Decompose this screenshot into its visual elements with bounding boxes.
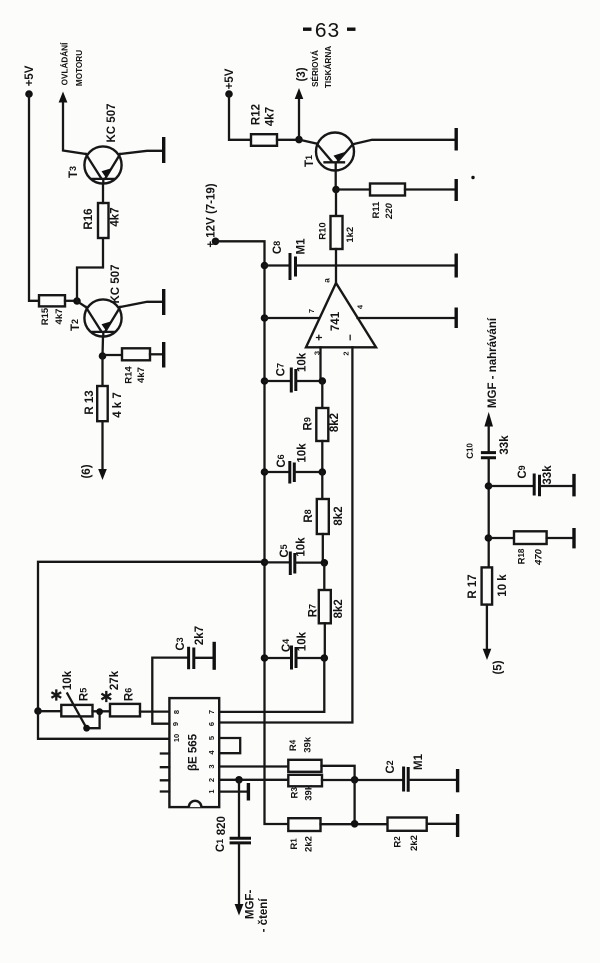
svg-text:10k: 10k [297, 631, 309, 651]
svg-text:R15: R15 [40, 307, 51, 325]
wire T2 collector lead [77, 301, 86, 307]
wire strap pin5 to pin4 [219, 738, 240, 753]
svg-text:33k: 33k [542, 465, 554, 485]
op-amp U1 741 [306, 278, 376, 356]
svg-text:MGF-: MGF- [245, 890, 257, 920]
ground R2 [456, 814, 459, 837]
node R1-R2 junction [351, 820, 359, 828]
wire op-amp pin3 stub to C7 node [319, 347, 321, 381]
resistor R2 [388, 818, 427, 851]
wire C5 node to R7 [323, 563, 325, 590]
arrow MGF nahravani [484, 412, 493, 427]
ground C3 [212, 642, 215, 670]
resistor R10 [317, 216, 356, 249]
svg-text:2k7: 2k7 [194, 626, 206, 645]
ground R14 [162, 342, 165, 368]
svg-text:OVLÁDÁNÍ: OVLÁDÁNÍ [60, 42, 70, 85]
wire output line C8 to ground [296, 264, 455, 266]
svg-text:2: 2 [207, 778, 216, 782]
wire C10 down through nodes [488, 458, 490, 567]
ground T3 emitter [162, 137, 165, 163]
svg-text:4k7: 4k7 [110, 207, 122, 226]
wire op-amp pin2 feedback to IC pin6 [219, 347, 352, 722]
wire junction down to R1-R2 node [353, 780, 355, 824]
svg-text:820: 820 [216, 816, 228, 835]
svg-text:220: 220 [384, 202, 395, 220]
arrow (5) [483, 649, 492, 660]
svg-text:C5: C5 [279, 544, 291, 557]
capacitor C8 [272, 238, 308, 280]
transistor T3 KC507 [68, 104, 122, 184]
node pin2 junction [235, 776, 243, 784]
wire C4 node down to IC pin 7 [219, 658, 324, 712]
svg-text:TISKÁRNA: TISKÁRNA [323, 46, 333, 88]
wire C7 node to R9 [321, 381, 323, 408]
svg-text:C4: C4 [281, 639, 293, 652]
node T2 base junction [99, 352, 107, 360]
svg-text:R4: R4 [288, 739, 299, 751]
svg-text:2k2: 2k2 [304, 836, 315, 852]
wire node to R18 [488, 537, 514, 539]
node C7 right junction [319, 377, 327, 385]
svg-text:C7: C7 [276, 363, 288, 376]
ground C2 [456, 769, 459, 792]
node pot wiper junction [96, 708, 103, 715]
star mark R5 [52, 691, 60, 700]
wire T3 emitter to ground [120, 151, 162, 154]
wire node to R13 [101, 356, 103, 386]
resistor R4 [288, 736, 321, 772]
capacitor C5 [265, 537, 325, 575]
svg-text:33k: 33k [499, 435, 511, 455]
wire R1 to R2 [321, 823, 388, 825]
svg-text:27k: 27k [109, 670, 121, 690]
node T1 emitter junction [332, 186, 340, 194]
svg-text:R10: R10 [317, 222, 328, 239]
wire R10 to output node [335, 249, 337, 266]
svg-text:63: 63 [314, 21, 339, 44]
label ovladani motoru [60, 42, 85, 86]
svg-text:MGF - nahrávání: MGF - nahrávání [487, 317, 499, 408]
wire IC pin3 to R4 [219, 765, 288, 767]
resistor R1 [288, 818, 320, 852]
wire R12 to T1 base node [277, 139, 299, 141]
wire C2 to ground [408, 779, 455, 781]
resistor R13 [84, 386, 124, 421]
wire arrow to C10 [488, 425, 490, 452]
ground IC pin1 [247, 783, 250, 801]
svg-text:8: 8 [172, 710, 181, 714]
wire node to R10 [335, 190, 337, 217]
svg-text:C2: C2 [385, 760, 397, 773]
svg-text:KC 507: KC 507 [106, 104, 118, 143]
wire long left branch from pot node to C5 rail node [38, 562, 265, 711]
label MGF cteni [245, 890, 270, 933]
svg-text:- čtení: - čtení [258, 898, 270, 933]
wire op-amp pin 4 to ground [358, 317, 455, 319]
svg-text:3: 3 [207, 764, 216, 768]
svg-text:βE 565: βE 565 [188, 733, 200, 771]
svg-text:−: − [345, 334, 357, 341]
capacitor C10 [465, 435, 511, 459]
ground T1 [455, 128, 458, 151]
node R18 junction [485, 534, 493, 542]
arrow ovladani motoru [59, 92, 68, 103]
svg-text:M1: M1 [296, 238, 308, 255]
svg-text:2k2: 2k2 [409, 835, 420, 851]
svg-text:SÉRIOVÁ: SÉRIOVÁ [310, 50, 320, 87]
svg-text:4k7: 4k7 [265, 107, 277, 126]
node rail C5 junction [261, 559, 269, 567]
ground C9 [572, 474, 575, 497]
svg-text:R18: R18 [517, 548, 528, 564]
wire R7 to C4 node [324, 623, 326, 658]
wire +12V rail (main vertical rail) [216, 241, 289, 824]
svg-text:T2: T2 [70, 319, 82, 331]
svg-text:M1: M1 [413, 753, 425, 770]
svg-text:6: 6 [207, 722, 216, 726]
IC U2 BE565 [169, 698, 219, 807]
svg-text:4k7: 4k7 [54, 309, 65, 325]
capacitor C3 [152, 626, 212, 724]
svg-text:5: 5 [207, 736, 216, 740]
arrow MGF cteni [235, 904, 244, 916]
node rail C6 junction [261, 468, 269, 476]
svg-text:10k: 10k [297, 443, 309, 463]
wire R15 to T2 collector node [65, 300, 77, 302]
wire node to R11 [336, 188, 370, 190]
svg-text:9: 9 [171, 722, 180, 726]
capacitor C6 [265, 443, 323, 484]
node R3-R4-C2 junction [351, 776, 359, 784]
node C4 right junction [321, 654, 329, 662]
capacitor C9 [517, 465, 554, 496]
svg-text:R14: R14 [124, 366, 135, 384]
resistor R7 [308, 590, 345, 623]
wire C9 to ground [540, 485, 573, 487]
svg-text:1k2: 1k2 [345, 227, 356, 243]
resistor R3 [288, 775, 322, 801]
svg-text:+: + [314, 334, 326, 341]
resistor R16 [83, 203, 122, 238]
wire C6 node to R8 [321, 472, 323, 499]
resistor R11 [370, 184, 405, 220]
ground T2 emitter [162, 289, 165, 315]
svg-text:R7: R7 [308, 604, 320, 617]
svg-text:T3: T3 [68, 166, 80, 178]
resistor R18 [514, 531, 547, 566]
capacitor C2 [385, 753, 425, 791]
ground R18 [572, 528, 575, 548]
svg-text:R11: R11 [371, 201, 382, 219]
wire R18 to ground [547, 537, 572, 539]
resistor R8 [303, 499, 345, 534]
node pot branch junction [34, 707, 42, 715]
wire IC pin1 to ground [219, 790, 246, 792]
speck [471, 176, 474, 179]
svg-text:R1: R1 [289, 838, 300, 850]
node T2 collector junction [73, 297, 81, 305]
wire output line rail to C8 [265, 264, 290, 266]
svg-text:C10: C10 [465, 443, 476, 459]
wire R8 to C5 node [322, 534, 324, 563]
label seriova tiskarna [310, 46, 333, 88]
wire T3 collector to output arrow [63, 102, 86, 154]
svg-text:R3: R3 [290, 787, 301, 799]
node +12V terminal dot [212, 238, 220, 246]
svg-text:R12: R12 [251, 104, 263, 125]
svg-text:KC 507: KC 507 [110, 265, 122, 304]
wire pin2 node down to C1 [238, 780, 240, 837]
wire R9 to C6 node [321, 441, 323, 472]
svg-text:39k: 39k [304, 784, 315, 801]
svg-text:39k: 39k [303, 736, 314, 753]
wire +5V to R12 [229, 94, 251, 140]
node rail C7 junction [261, 377, 269, 385]
wire node to R14 [103, 354, 123, 356]
resistor R17 [467, 567, 509, 604]
arrow (3) [295, 88, 304, 99]
svg-text:R8: R8 [303, 509, 315, 522]
svg-text:R6: R6 [123, 688, 135, 701]
star mark R6 [102, 692, 110, 701]
resistor R15 [39, 295, 65, 325]
wire R5 to R6 [93, 710, 111, 712]
svg-text:R2: R2 [393, 836, 404, 848]
svg-text:10k: 10k [297, 352, 309, 372]
svg-text:1: 1 [207, 789, 216, 793]
wire R16 to T3 base [102, 184, 104, 204]
node C5 right junction [321, 559, 329, 567]
arrow (6) [98, 469, 107, 480]
svg-text:8k2: 8k2 [333, 506, 345, 525]
svg-text:470: 470 [534, 548, 545, 566]
svg-text:R 13: R 13 [84, 390, 96, 414]
svg-text:10: 10 [172, 734, 181, 742]
ground R11 [455, 179, 458, 201]
node +5V terminal dot (middle) [225, 90, 233, 98]
wire R14 to ground [150, 353, 162, 355]
svg-text:(5): (5) [493, 660, 505, 674]
svg-text:R9: R9 [303, 417, 315, 430]
svg-text:4: 4 [355, 304, 364, 309]
wire T2 base down to node [101, 336, 104, 356]
potentiometer R5 [61, 670, 99, 731]
page number 63 [303, 21, 356, 44]
svg-text:C3: C3 [175, 637, 187, 650]
svg-text:10k: 10k [296, 537, 308, 557]
svg-text:R5: R5 [78, 688, 90, 701]
svg-text:8k2: 8k2 [333, 599, 345, 618]
svg-text:4 k 7: 4 k 7 [112, 392, 124, 418]
resistor R9 [303, 408, 342, 441]
ground op-amp pin4 [455, 308, 458, 329]
node T1 base junction [295, 136, 303, 144]
capacitor C1 [215, 816, 251, 852]
wire R4 right to feedback node [322, 766, 355, 780]
transistor T2 KC507 [70, 265, 122, 337]
svg-text:10 k: 10 k [497, 574, 509, 597]
svg-text:+5V: +5V [24, 65, 36, 86]
svg-text:+5V: +5V [224, 68, 236, 89]
wire collector node up to R16 [77, 238, 103, 301]
svg-text:R16: R16 [83, 208, 95, 229]
node C6 right junction [319, 468, 327, 476]
svg-text:C1: C1 [215, 839, 227, 852]
wire node to R5 [38, 710, 61, 712]
svg-text:7: 7 [207, 710, 216, 714]
ground output line [455, 254, 458, 278]
wire pot node down to IC pin 10 [38, 711, 169, 739]
svg-text:T1: T1 [304, 155, 316, 167]
wire R11 to ground [405, 188, 455, 190]
wire R13 down to (6) [101, 421, 103, 469]
node rail C4 junction [261, 654, 269, 662]
node rail-output junction [261, 262, 269, 270]
svg-text:C6: C6 [276, 454, 288, 467]
transistor T1 [304, 133, 354, 190]
wire +5V rail down to R15 [29, 94, 39, 301]
svg-text:(6): (6) [81, 464, 93, 478]
wire R17 down to (5) [486, 605, 488, 649]
wire op-amp output stem [335, 266, 337, 284]
resistor R6 [109, 670, 140, 716]
wire R6 to IC pin 8 [140, 710, 169, 712]
resistor R12 [251, 104, 277, 146]
wire IC pin2 to R3 [219, 779, 288, 781]
wire node to C9 [489, 485, 533, 487]
wire T1 right lead to ground [353, 140, 455, 144]
wire R3 right to C2 [322, 779, 402, 781]
svg-text:R 17: R 17 [467, 574, 479, 598]
pin stubs unconnected left [161, 754, 170, 792]
svg-text:10k: 10k [62, 670, 74, 690]
svg-text:a: a [323, 278, 332, 283]
svg-text:741: 741 [330, 311, 342, 331]
node +5V terminal dot (left) [25, 90, 33, 98]
wire C1 to MGF cteni arrow [238, 844, 240, 904]
svg-text:4k7: 4k7 [136, 367, 147, 383]
wire op-amp pin 7 to rail [265, 317, 319, 319]
svg-text:8k2: 8k2 [329, 413, 341, 432]
wire node to T1 [299, 140, 317, 144]
node rail op-amp pin7 junction [261, 314, 269, 322]
svg-text:C9: C9 [517, 465, 529, 478]
svg-text:2: 2 [341, 351, 350, 355]
capacitor C7 [265, 352, 323, 392]
wire node up to (3) arrow [298, 99, 300, 140]
capacitor C4 [265, 631, 325, 669]
wire T2 emitter to ground [120, 302, 162, 307]
svg-text:7: 7 [307, 309, 316, 313]
svg-text:(3): (3) [296, 67, 308, 81]
svg-text:MOTORU: MOTORU [75, 50, 84, 86]
svg-text:C8: C8 [272, 241, 284, 254]
node C9 junction [485, 482, 493, 490]
wire R2 to ground [427, 823, 456, 825]
resistor R14 [122, 348, 150, 383]
